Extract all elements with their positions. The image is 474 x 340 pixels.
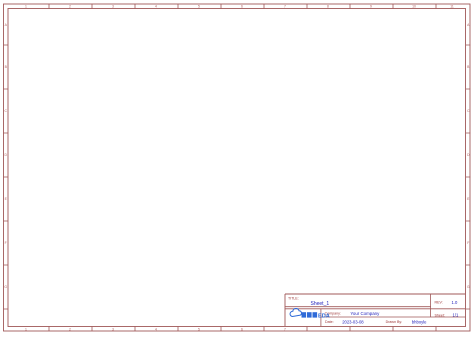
frame ticks left [4,45,9,309]
svg-text:2023-03-08: 2023-03-08 [342,319,364,324]
svg-text:8: 8 [327,5,329,9]
frame ticks top [49,4,436,9]
svg-text:F: F [467,241,469,245]
svg-text:10: 10 [412,5,416,9]
svg-text:2: 2 [69,327,71,331]
svg-text:Sheet_1: Sheet_1 [311,301,330,307]
svg-text:TITLE:: TITLE: [288,297,299,301]
svg-text:REV:: REV: [435,301,443,305]
svg-text:11: 11 [450,5,454,9]
svg-text:bhboyle: bhboyle [412,319,427,324]
EDA logo [290,309,330,320]
svg-text:Sheet:: Sheet: [435,313,445,317]
svg-text:G: G [4,285,7,289]
frame ticks bottom [49,327,436,332]
frame ticks right [466,45,471,309]
svg-text:1: 1 [25,327,27,331]
svg-text:5: 5 [198,327,200,331]
svg-text:3: 3 [112,327,114,331]
svg-text:1/1: 1/1 [453,313,459,318]
svg-text:6: 6 [241,5,243,9]
svg-text:EDA: EDA [318,314,330,320]
svg-text:G: G [467,285,470,289]
svg-text:1.0: 1.0 [452,300,458,305]
svg-text:7: 7 [284,327,286,331]
svg-text:Date:: Date: [325,320,334,324]
svg-text:F: F [5,241,7,245]
svg-text:5: 5 [198,5,200,9]
frame zone letters [4,23,470,289]
svg-text:2: 2 [69,5,71,9]
svg-text:9: 9 [370,5,372,9]
svg-text:6: 6 [241,327,243,331]
title block outline [285,294,466,326]
svg-text:7: 7 [284,5,286,9]
svg-text:4: 4 [155,5,157,9]
svg-text:Your Company: Your Company [350,311,380,316]
svg-text:3: 3 [112,5,114,9]
svg-text:4: 4 [155,327,157,331]
svg-text:Drawn By:: Drawn By: [386,320,403,324]
svg-text:1: 1 [25,5,27,9]
title block row lines [285,294,466,326]
